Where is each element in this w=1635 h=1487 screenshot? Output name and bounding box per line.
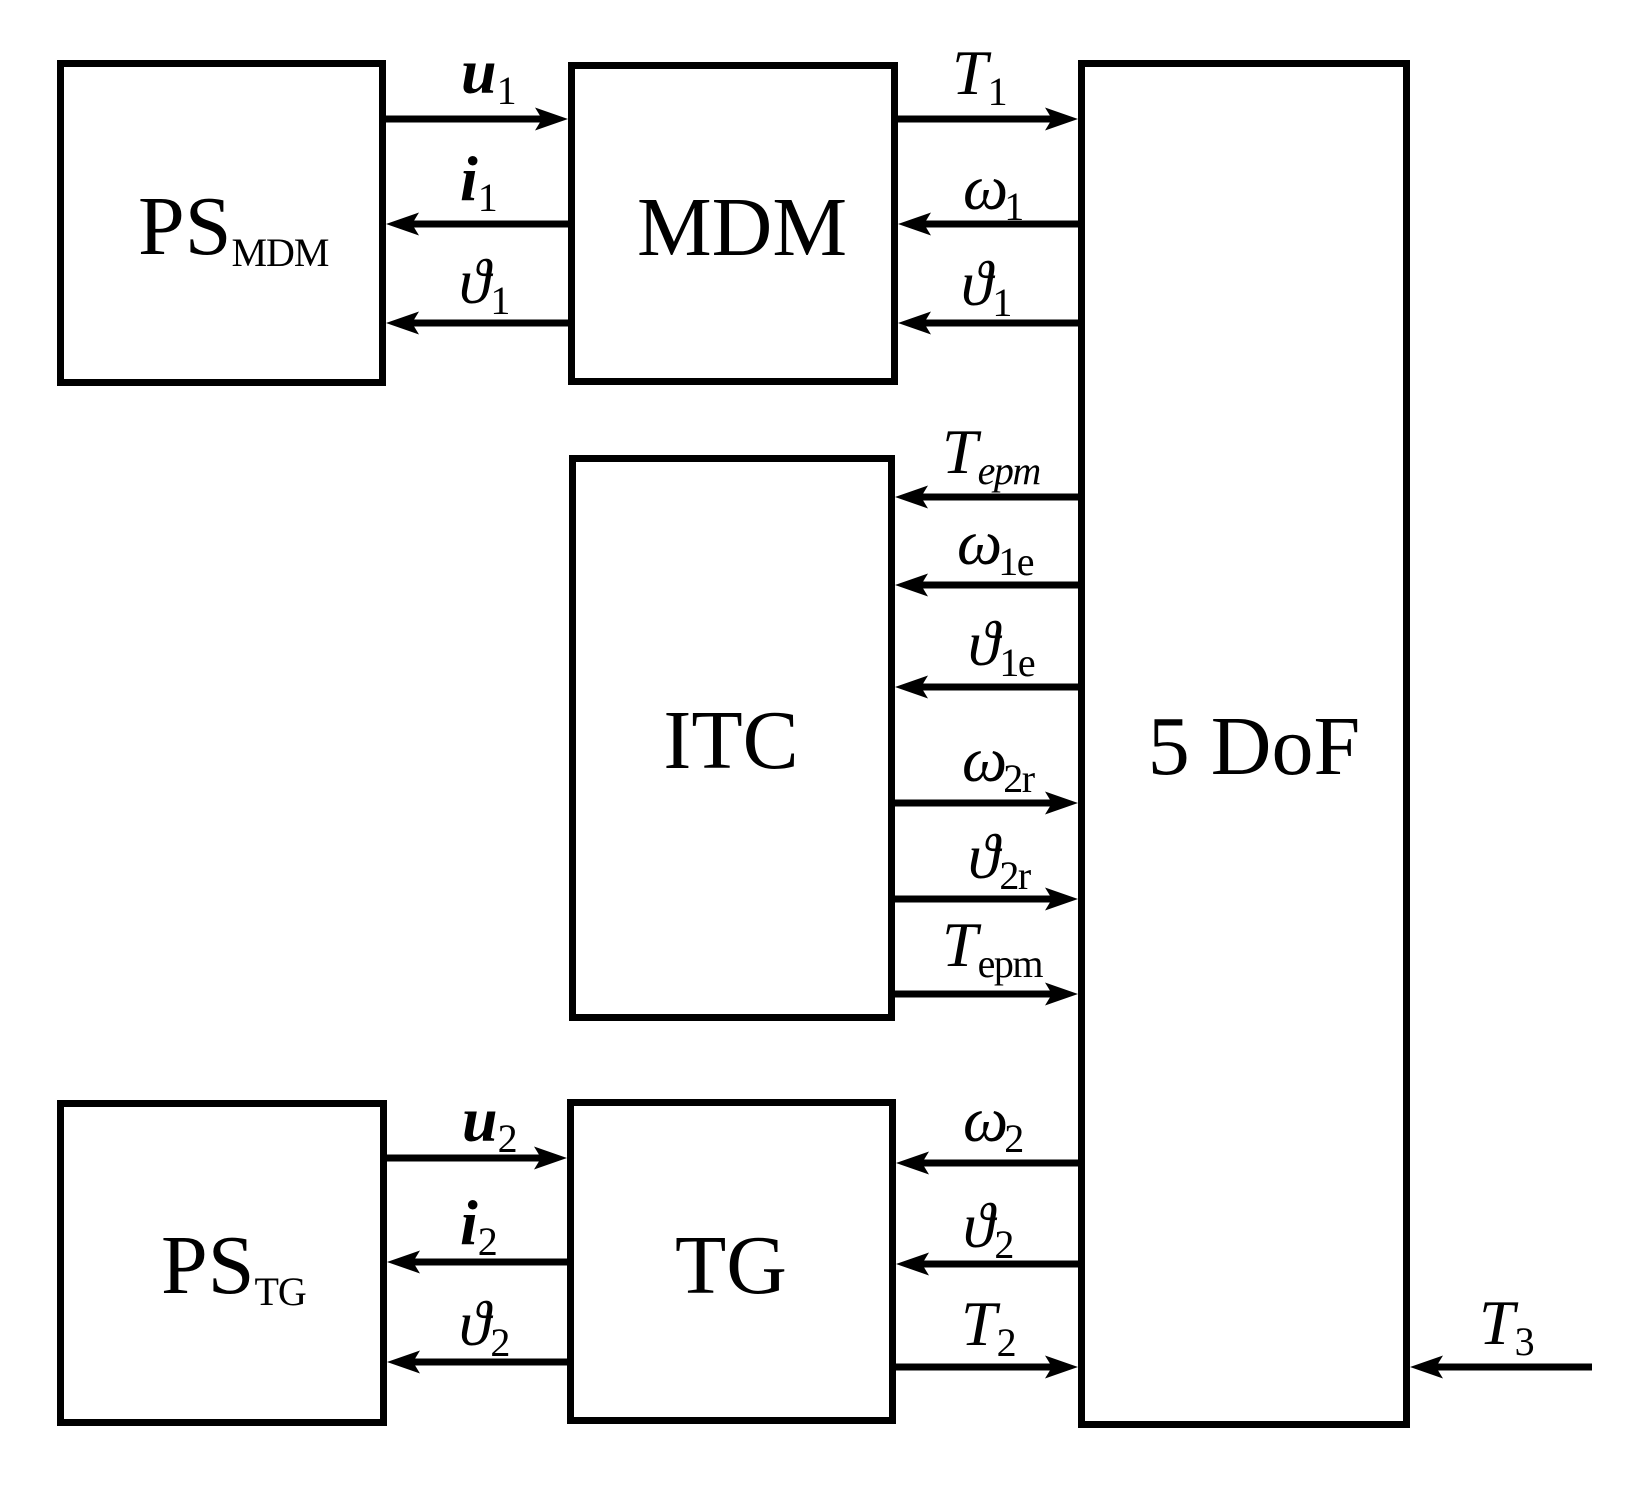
svg-text:i1: i1 (460, 143, 498, 220)
svg-text:T2: T2 (961, 1288, 1017, 1365)
svg-text:ω2: ω2 (963, 1084, 1024, 1161)
wire omega1e (895, 574, 1078, 597)
wire omega2r (892, 792, 1078, 815)
block PS_TG (61, 1104, 384, 1423)
svg-text:5 DoF: 5 DoF (1148, 700, 1360, 793)
block PS_MDM (61, 64, 383, 383)
wire T3 (1410, 1356, 1592, 1379)
wire theta1 right (898, 312, 1078, 335)
wire theta2r (892, 888, 1078, 911)
wire T2 (893, 1356, 1078, 1379)
svg-text:TG: TG (675, 1219, 787, 1312)
wire u2 (384, 1147, 567, 1170)
wire Tepm out (892, 983, 1078, 1006)
block TG (571, 1103, 893, 1421)
svg-text:ϑ1: ϑ1 (459, 246, 510, 323)
svg-text:ϑ1: ϑ1 (961, 248, 1012, 325)
wire theta1e (895, 676, 1078, 699)
wire theta1 left (386, 312, 568, 335)
svg-text:T3: T3 (1479, 1287, 1535, 1364)
svg-text:ω2r: ω2r (962, 724, 1035, 801)
wire T1 (895, 108, 1078, 131)
svg-text:i2: i2 (460, 1187, 498, 1264)
svg-text:ω1e: ω1e (957, 507, 1034, 584)
svg-text:MDM: MDM (637, 181, 847, 274)
block 5DoF (1082, 64, 1407, 1425)
svg-text:ϑ2: ϑ2 (459, 1288, 510, 1365)
svg-text:ω1: ω1 (963, 152, 1024, 229)
svg-text:u1: u1 (461, 36, 517, 113)
svg-text:ϑ1e: ϑ1e (968, 608, 1035, 685)
svg-text:Tepm: Tepm (942, 416, 1040, 493)
wire Tepm in (895, 486, 1078, 509)
wire i2 (387, 1251, 567, 1274)
svg-text:u2: u2 (462, 1084, 518, 1161)
wire u1 (383, 108, 568, 131)
wire theta2 left (387, 1351, 567, 1374)
wire omega2 (896, 1152, 1078, 1175)
svg-text:ϑ2: ϑ2 (963, 1190, 1014, 1267)
block MDM (572, 66, 895, 382)
svg-text:T1: T1 (952, 37, 1008, 114)
block ITC (573, 459, 892, 1018)
wire theta2 right (896, 1253, 1078, 1276)
wire i1 (386, 213, 568, 236)
wire omega1 (898, 213, 1078, 236)
svg-text:ϑ2r: ϑ2r (968, 821, 1031, 898)
svg-text:Tepm: Tepm (942, 909, 1043, 986)
svg-text:ITC: ITC (663, 694, 798, 787)
